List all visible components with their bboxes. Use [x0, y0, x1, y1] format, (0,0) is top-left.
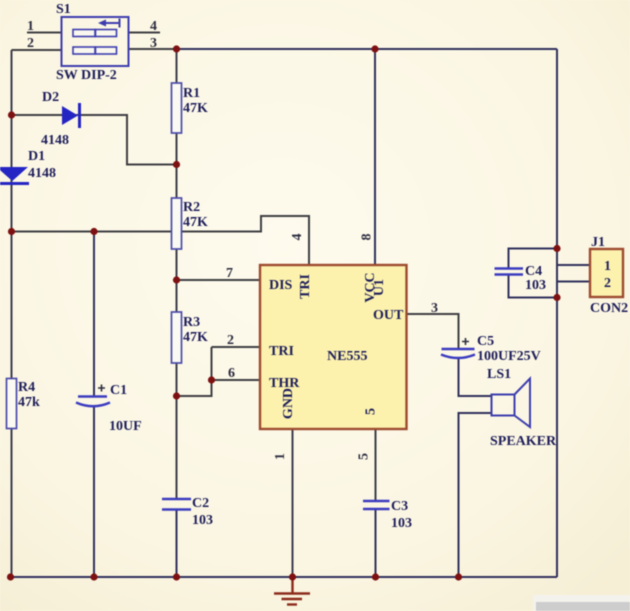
svg-text:J1: J1	[591, 235, 605, 250]
svg-text:D2: D2	[42, 90, 59, 105]
svg-text:103: 103	[192, 513, 213, 528]
svg-text:U1: U1	[372, 279, 387, 296]
svg-text:4: 4	[150, 19, 157, 34]
svg-text:CON2: CON2	[590, 301, 628, 316]
node pin8 / top rail	[371, 45, 378, 52]
wire pin2/pin6 branch vertical	[177, 347, 212, 396]
svg-text:1: 1	[27, 19, 34, 34]
node GND pin / bottom rail	[289, 573, 296, 580]
svg-text:R1: R1	[183, 86, 200, 101]
wire pin 7 DIS	[177, 279, 261, 281]
wire C4 loop bottom	[509, 275, 558, 298]
capacitor C4	[495, 269, 524, 275]
svg-text:C3: C3	[391, 499, 408, 514]
svg-text:7: 7	[226, 266, 233, 281]
wire chip pin 1 GND vertical	[292, 429, 294, 577]
node pin3 / top rail	[173, 45, 180, 52]
svg-text:SW DIP-2: SW DIP-2	[56, 68, 117, 83]
svg-text:47K: 47K	[183, 330, 208, 345]
node pin6 branch	[208, 376, 215, 383]
svg-text:1: 1	[273, 453, 288, 460]
svg-text:D1: D1	[28, 149, 45, 164]
svg-text:6: 6	[228, 366, 235, 381]
wire pin 2 TRI	[212, 346, 261, 348]
svg-text:3: 3	[150, 36, 157, 51]
node C2 bottom / bottom rail	[173, 573, 180, 580]
svg-text:4148: 4148	[41, 133, 69, 148]
svg-text:R2: R2	[183, 200, 200, 215]
wire switch pin 3	[129, 48, 177, 50]
svg-text:1: 1	[604, 259, 611, 274]
wire mid horizontal to pin 4	[12, 216, 310, 265]
resistor R3	[172, 312, 182, 363]
svg-text:C5: C5	[477, 334, 494, 349]
wire C1 branch lower	[93, 407, 95, 578]
node speaker / bottom rail	[455, 573, 462, 580]
svg-text:4: 4	[290, 234, 305, 241]
node left rail mid	[8, 228, 15, 235]
node pin7 / middle rail	[173, 276, 180, 283]
resistor R4	[7, 379, 17, 429]
svg-text:5: 5	[364, 408, 379, 415]
svg-text:100UF25V: 100UF25V	[477, 349, 541, 364]
svg-text:R4: R4	[18, 380, 35, 395]
wire left rail	[11, 50, 13, 577]
svg-text:R3: R3	[183, 315, 200, 330]
resistor R1	[172, 83, 182, 133]
wire switch pin 1 stub	[27, 32, 62, 34]
diode D2	[62, 103, 80, 128]
diode D1	[0, 167, 29, 184]
wire speaker bottom terminal to ground rail	[459, 413, 492, 577]
node C4 top / right rail	[553, 245, 560, 252]
svg-text:3: 3	[431, 301, 438, 316]
capacitor C3	[363, 501, 390, 509]
svg-text:C4: C4	[525, 264, 542, 279]
node C1 bottom / bottom rail	[90, 573, 97, 580]
node C1 top	[90, 228, 97, 235]
wire J1 pin 2	[557, 281, 590, 283]
svg-text:47K: 47K	[183, 101, 208, 116]
switch S1 SW DIP-2	[62, 17, 129, 66]
node C3 bottom / bottom rail	[372, 573, 379, 580]
svg-text:2: 2	[27, 36, 34, 51]
timer IC U1 NE555 body	[260, 265, 407, 429]
svg-text:103: 103	[391, 516, 412, 531]
svg-text:TRI: TRI	[269, 344, 294, 359]
wire C4 loop top	[509, 249, 558, 269]
svg-text:S1: S1	[56, 2, 71, 17]
svg-text:4148: 4148	[28, 166, 56, 181]
wire C3 to bottom rail	[375, 509, 377, 577]
node bottom rail left corner	[7, 573, 14, 580]
wire bottom rail (ground net)	[11, 576, 558, 578]
svg-text:47K: 47K	[183, 215, 208, 230]
node C4 bottom / right rail	[553, 294, 560, 301]
wire pin 6 THR	[212, 379, 261, 381]
svg-text:GND: GND	[281, 388, 296, 419]
svg-text:8: 8	[360, 234, 375, 241]
node D2 anode / left rail	[8, 111, 15, 118]
svg-text:47k: 47k	[18, 395, 40, 410]
wire switch pin 2	[12, 49, 62, 51]
node R1/R2/D2 cathode	[173, 161, 180, 168]
svg-text:103: 103	[525, 278, 546, 293]
resistor R2	[172, 198, 182, 249]
wire C1 branch upper	[93, 232, 95, 397]
svg-text:NE555: NE555	[327, 349, 367, 364]
wire top rail (VCC net)	[177, 48, 558, 50]
svg-text:C2: C2	[192, 496, 209, 511]
svg-text:SPEAKER: SPEAKER	[490, 434, 557, 449]
connector J1 CON2	[590, 249, 623, 297]
svg-text:10UF: 10UF	[109, 419, 142, 434]
svg-text:5: 5	[357, 453, 372, 460]
wire middle rail below C2	[176, 510, 178, 578]
wire D2 branch	[12, 115, 177, 165]
wire right rail	[556, 49, 558, 577]
wire OUT pin 3 to C5	[407, 314, 459, 349]
svg-text:TRI: TRI	[298, 274, 313, 299]
wire pin 5 to C3	[375, 429, 377, 501]
capacitor C1	[76, 385, 110, 407]
capacitor C2	[162, 499, 191, 510]
node middle rail / pin6 branch	[173, 392, 180, 399]
ground	[274, 577, 310, 605]
wire pin 8 VCC vertical	[374, 49, 376, 265]
capacitor C5	[441, 338, 475, 358]
svg-text:2: 2	[227, 333, 234, 348]
wire switch pin 4 stub	[129, 32, 161, 34]
svg-text:DIS: DIS	[269, 278, 293, 293]
speaker LS1	[492, 379, 531, 428]
svg-text:C1: C1	[110, 383, 127, 398]
wire C5 to speaker top terminal	[459, 359, 492, 396]
svg-text:2: 2	[604, 276, 611, 291]
svg-text:LS1: LS1	[487, 367, 511, 382]
svg-text:OUT: OUT	[373, 308, 404, 323]
wire middle rail R1-R2-R3	[176, 49, 178, 499]
wire J1 pin 1	[557, 264, 590, 266]
